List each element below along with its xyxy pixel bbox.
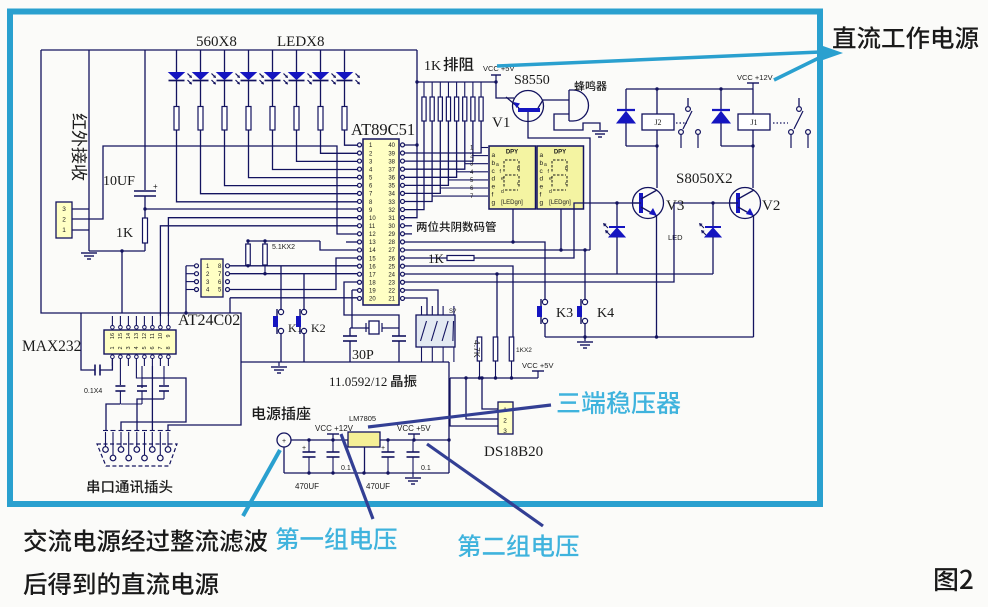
resistor 5.1K b <box>263 244 268 265</box>
svg-text:b: b <box>565 166 568 172</box>
pin 11 <box>358 224 362 228</box>
wire power rail <box>291 439 449 441</box>
capacitor C5 <box>81 313 95 370</box>
svg-text:0.1: 0.1 <box>341 465 351 472</box>
capacitor 104 a <box>332 440 334 452</box>
wire pin21 <box>404 298 427 315</box>
svg-text:4.7K: 4.7K <box>472 340 482 358</box>
wire J1 bottom <box>752 130 754 146</box>
wire RN5 to pin36 <box>404 121 457 177</box>
pin 6 <box>358 183 362 187</box>
svg-text:33: 33 <box>388 200 395 206</box>
IR receiver U-IR <box>56 202 72 238</box>
pin 30 <box>401 224 405 228</box>
svg-text:d: d <box>540 176 544 183</box>
svg-text:+: + <box>302 445 306 452</box>
svg-text:15: 15 <box>118 333 124 339</box>
svg-text:1: 1 <box>62 227 66 234</box>
display DPY1 <box>489 146 536 209</box>
contact S J2 <box>687 98 689 106</box>
svg-text:4: 4 <box>134 346 140 349</box>
pin 36 <box>401 175 405 179</box>
wire ds pin1 <box>482 378 498 409</box>
wire K4 bottom <box>584 324 586 338</box>
svg-text:40: 40 <box>388 143 395 149</box>
svg-text:+: + <box>153 182 158 191</box>
svg-text:AT89C51: AT89C51 <box>351 120 415 139</box>
label regulator cyan <box>558 391 681 414</box>
wire RN4 to pin35 <box>404 121 448 185</box>
wire rxd <box>168 218 358 316</box>
pin 16 <box>358 264 362 268</box>
label IR receiver vertical <box>72 114 88 181</box>
LED D2 <box>200 50 202 73</box>
wire pin31 EA <box>404 145 417 218</box>
resistor 560 R3 <box>222 107 227 131</box>
wire gnd to db9 <box>168 362 241 430</box>
label AC filter line2 <box>24 572 219 595</box>
svg-text:24: 24 <box>388 272 395 278</box>
svg-text:S8050X2: S8050X2 <box>676 171 733 187</box>
wire left outer gnd run <box>41 50 241 362</box>
svg-text:1: 1 <box>110 346 116 349</box>
ground rail <box>241 361 449 363</box>
wire RST column <box>144 50 146 190</box>
wire J2 bottom <box>656 130 658 146</box>
pin 28 <box>401 240 405 244</box>
capacitor C6 <box>119 366 121 385</box>
svg-text:27: 27 <box>388 248 395 254</box>
svg-text:VCC +12V: VCC +12V <box>737 73 773 82</box>
pin 15 <box>358 256 362 260</box>
wire max to db9 d <box>137 399 164 430</box>
pin 13 <box>358 240 362 244</box>
transistor V2 S8050 <box>730 188 761 219</box>
LED D1 <box>176 50 178 73</box>
svg-text:12: 12 <box>369 232 376 238</box>
wire top VCC rail <box>41 49 417 51</box>
wire max to db9 b <box>141 385 143 388</box>
resistor 560 R1 <box>174 107 179 131</box>
wire LED4 to pin5 <box>249 130 359 178</box>
pin 38 <box>401 159 405 163</box>
svg-text:e: e <box>492 184 496 191</box>
wire max to db9 c <box>121 378 186 430</box>
wire dpy1 common <box>512 209 514 242</box>
svg-text:1K: 1K <box>116 226 133 241</box>
wire 5.1K tie <box>248 240 320 242</box>
svg-text:a: a <box>544 162 547 168</box>
wire RN5 to display seg <box>457 171 488 173</box>
wire pin28 to K3 <box>404 242 545 300</box>
svg-text:1KX2: 1KX2 <box>516 347 532 354</box>
wire RN rail <box>417 81 496 83</box>
svg-text:b: b <box>540 160 544 167</box>
capacitor 470UF a <box>308 440 310 452</box>
resistor 560 R8 <box>342 107 347 131</box>
frame border <box>10 12 820 505</box>
diode LED V3 <box>615 201 618 204</box>
wire K2 up <box>303 274 305 310</box>
resistor pullup <box>477 337 482 361</box>
wire LED2 to pin7 <box>201 130 359 194</box>
pin 3 <box>358 159 362 163</box>
label serial <box>87 480 172 493</box>
svg-text:2: 2 <box>503 418 507 425</box>
resistor RN1 <box>423 82 425 97</box>
switch K2 <box>301 309 306 314</box>
pin 22 <box>401 288 405 292</box>
wire jack down <box>283 447 285 473</box>
wire RN2 to pin33 <box>404 121 432 202</box>
relay J1 <box>752 89 754 114</box>
pin 10 <box>358 216 362 220</box>
svg-text:a: a <box>496 162 499 168</box>
display DPY2 <box>537 146 584 209</box>
svg-text:J2: J2 <box>654 118 661 127</box>
wire pin20 gnd <box>230 298 357 313</box>
svg-text:+: + <box>381 445 385 452</box>
svg-text:DS18B20: DS18B20 <box>484 444 543 460</box>
svg-text:6: 6 <box>150 346 156 349</box>
resistor 560 R7 <box>318 107 323 131</box>
wire LED5 to pin4 <box>273 130 359 170</box>
regulator LM7805 <box>348 432 380 447</box>
pin 34 <box>401 191 405 195</box>
pin 12 <box>358 232 362 236</box>
svg-text:DPY: DPY <box>506 150 518 156</box>
svg-text:LM7805: LM7805 <box>349 414 376 423</box>
wire pin24 rail <box>404 273 713 275</box>
svg-text:560X8: 560X8 <box>196 34 237 50</box>
pin 7 <box>358 191 362 195</box>
sensor DS18B20 <box>498 402 513 434</box>
wire relay rail <box>626 88 753 90</box>
label power socket <box>253 406 311 420</box>
svg-text:5: 5 <box>142 346 148 349</box>
svg-text:a: a <box>492 152 496 159</box>
capacitor 104 b <box>412 440 414 452</box>
svg-text:19: 19 <box>369 289 376 295</box>
svg-text:14: 14 <box>369 248 376 254</box>
svg-text:0.1X4: 0.1X4 <box>84 388 102 395</box>
svg-text:[LEDgn]: [LEDgn] <box>501 200 523 206</box>
svg-text:18: 18 <box>369 281 376 287</box>
svg-text:LED: LED <box>668 233 683 242</box>
wire RN4 to display seg <box>448 179 488 181</box>
svg-text:30: 30 <box>388 224 395 230</box>
pin 19 <box>358 288 362 292</box>
wire K1 down <box>280 334 282 362</box>
wire xtal right <box>382 327 399 329</box>
svg-text:14: 14 <box>126 333 132 339</box>
pin 24 <box>401 272 405 276</box>
svg-text:g: g <box>492 199 496 206</box>
svg-text:31: 31 <box>388 216 395 222</box>
wire LED1 to pin8 <box>177 130 359 202</box>
LED D5 <box>272 50 274 73</box>
wire emitter rail <box>545 336 754 338</box>
svg-text:26: 26 <box>388 256 395 262</box>
LED D6 <box>296 50 298 73</box>
label AC filter line1 <box>24 529 267 552</box>
wire V1 base down <box>528 112 590 250</box>
capacitor 470UF b <box>387 440 389 452</box>
wire 1K to V3 base <box>474 203 641 258</box>
label group2 <box>458 534 579 557</box>
wire pin25 pulldown <box>404 266 513 337</box>
svg-text:34: 34 <box>388 192 395 198</box>
label DC supply <box>833 26 978 49</box>
capacitor C30P a <box>349 328 351 336</box>
pin 37 <box>401 167 405 171</box>
pin 35 <box>401 183 405 187</box>
pin 20 <box>358 296 362 300</box>
svg-text:11: 11 <box>150 333 156 339</box>
wire RN3 to display seg <box>440 187 488 189</box>
wire cap to junction <box>144 196 146 218</box>
svg-text:470UF: 470UF <box>295 482 319 491</box>
svg-text:AT24C02: AT24C02 <box>178 312 240 329</box>
pin 1 <box>358 143 362 147</box>
svg-text:b: b <box>492 160 496 167</box>
svg-text:13: 13 <box>369 240 376 246</box>
wire J1 to V2 <box>752 146 754 188</box>
pin 32 <box>401 208 405 212</box>
pin 33 <box>401 199 405 203</box>
wire dpy2 common <box>560 209 562 250</box>
label fengmingqi <box>574 81 606 91</box>
wire pin23 to V2 base <box>404 203 738 282</box>
wire RST to pin9 <box>145 208 358 210</box>
wire max to db9 e <box>151 366 153 430</box>
svg-text:8: 8 <box>166 346 172 349</box>
resistor RN5 <box>456 82 458 97</box>
svg-text:3: 3 <box>503 428 507 435</box>
svg-text:K4: K4 <box>597 306 614 321</box>
transistor V3 S8050 <box>633 188 664 219</box>
label liangwei <box>404 225 412 227</box>
svg-text:15: 15 <box>369 256 376 262</box>
IC MAX232 U2 <box>104 330 176 354</box>
diode D2 flyback <box>625 89 627 110</box>
IC AT89C51 U1 <box>363 139 399 305</box>
arrow group1 <box>341 434 373 519</box>
wire RN2 to display seg <box>432 195 488 197</box>
svg-text:VCC +5V: VCC +5V <box>522 361 553 370</box>
svg-text:K2: K2 <box>311 321 326 335</box>
svg-text:2: 2 <box>118 346 124 349</box>
resistor 5.1K a <box>246 244 251 265</box>
wire max to db9 a <box>106 404 120 430</box>
wire LED3 to pin6 <box>225 130 359 186</box>
wire 5.1Ka bottom <box>247 265 249 266</box>
svg-text:J1: J1 <box>750 118 757 127</box>
svg-text:f: f <box>492 192 494 199</box>
wire LED7 to pin2 <box>321 130 359 153</box>
svg-text:16: 16 <box>110 333 116 339</box>
pin 27 <box>401 248 405 252</box>
pin 9 <box>358 208 362 212</box>
svg-text:V2: V2 <box>762 198 780 214</box>
svg-text:38: 38 <box>388 159 395 165</box>
svg-text:2: 2 <box>62 217 66 224</box>
wire pullup rail <box>450 377 538 379</box>
wire V3 emitter <box>656 215 658 337</box>
svg-text:DPY: DPY <box>554 150 566 156</box>
svg-text:g: g <box>540 199 544 206</box>
svg-text:30P: 30P <box>352 348 374 363</box>
wire LED6 to pin3 <box>297 130 359 161</box>
svg-text:VCC +5V: VCC +5V <box>397 424 431 433</box>
pin 8 <box>358 199 362 203</box>
svg-text:36: 36 <box>388 176 395 182</box>
LED D7 <box>320 50 322 73</box>
wire pin27 to K4 <box>404 249 590 251</box>
pin 18 <box>358 280 362 284</box>
pin 39 <box>401 151 405 155</box>
power jack J3 <box>277 433 291 447</box>
svg-text:10: 10 <box>158 333 164 339</box>
svg-text:0.1: 0.1 <box>421 465 431 472</box>
pin 25 <box>401 264 405 268</box>
svg-text:1K: 1K <box>428 251 445 266</box>
ground power <box>412 473 414 477</box>
wire RN8 to display seg <box>481 147 488 149</box>
wire IR pin1 <box>72 229 89 231</box>
wire K3 bottom <box>544 324 546 338</box>
buzzer LS1 <box>569 90 588 121</box>
svg-text:b: b <box>517 166 520 172</box>
LED D3 <box>224 50 226 73</box>
wire V2 emitter <box>753 215 755 337</box>
wire LED8 to pin1 <box>345 130 359 145</box>
wire xtal left <box>350 327 369 329</box>
pin 26 <box>401 256 405 260</box>
wire pin18 xtal <box>344 282 399 328</box>
pin 5 <box>358 175 362 179</box>
arrow to VCC5 <box>497 52 832 67</box>
wire pin13 stub <box>346 241 357 243</box>
wire j1 down <box>121 251 123 313</box>
pin 29 <box>401 232 405 236</box>
wire power right <box>448 362 450 473</box>
svg-text:+: + <box>282 438 286 445</box>
svg-text:22: 22 <box>388 289 395 295</box>
wire 1K to gnd <box>144 243 146 251</box>
resistor 1K RST <box>143 218 148 243</box>
wire pin22 <box>404 290 438 315</box>
resistor 560 R5 <box>270 107 275 131</box>
wire pin19 xtal <box>352 290 358 328</box>
wire K2 down <box>303 334 305 362</box>
wire RN6 to display seg <box>465 163 488 165</box>
wire 5.1Kb bottom <box>264 265 266 274</box>
ground K <box>584 337 586 341</box>
svg-text:35: 35 <box>388 184 395 190</box>
svg-text:13: 13 <box>134 333 140 339</box>
connector DB9 <box>97 444 177 466</box>
relay J2 <box>656 89 658 114</box>
resistor RN8 <box>480 82 482 97</box>
svg-text:23: 23 <box>388 281 395 287</box>
pin 2 <box>358 151 362 155</box>
capacitor 10UF <box>134 190 156 192</box>
pin 40 <box>401 143 405 147</box>
label group1 <box>276 527 397 550</box>
wire pin26 1K <box>404 257 447 259</box>
wire txd <box>160 226 358 316</box>
pin 23 <box>401 280 405 284</box>
pin 31 <box>401 216 405 220</box>
svg-text:32: 32 <box>388 208 395 214</box>
arrow group2 <box>427 444 543 526</box>
svg-text:K3: K3 <box>556 306 573 321</box>
svg-text:f: f <box>540 192 542 199</box>
wire IR pin2 route <box>72 146 358 234</box>
svg-text:29: 29 <box>388 232 395 238</box>
wire IR pin3 <box>72 208 89 210</box>
resistor RN4 <box>447 82 449 97</box>
svg-text:21: 21 <box>388 297 395 303</box>
wire power bottom rail <box>284 472 449 474</box>
svg-text:17: 17 <box>369 272 376 278</box>
wire RN7 to pin38 <box>404 121 473 161</box>
svg-text:37: 37 <box>388 167 395 173</box>
capacitor C7 <box>141 366 143 385</box>
svg-text:10UF: 10UF <box>103 174 135 189</box>
svg-text:25: 25 <box>388 264 395 270</box>
wire SDA line <box>230 265 358 267</box>
svg-text:MAX232: MAX232 <box>22 338 81 355</box>
wire SCL line <box>230 273 358 275</box>
svg-text:LEDX8: LEDX8 <box>277 34 325 50</box>
svg-text:e: e <box>549 176 552 182</box>
svg-text:e: e <box>540 184 544 191</box>
LED D4 <box>248 50 250 73</box>
arrow jack <box>243 450 280 516</box>
capacitor C30P b <box>398 328 400 336</box>
svg-text:V1: V1 <box>492 115 510 131</box>
resistor RN7 <box>472 82 474 97</box>
diode LED V2 <box>711 201 714 204</box>
wire buzzer return <box>554 114 600 130</box>
svg-text:11: 11 <box>369 224 376 230</box>
svg-text:3: 3 <box>62 206 66 213</box>
wire ds pin2 <box>466 378 498 419</box>
IC AT24C02 U3 <box>201 259 223 297</box>
svg-text:a: a <box>540 152 544 159</box>
svg-text:28: 28 <box>388 240 395 246</box>
wire V1 collector <box>542 99 569 101</box>
wire 7805 gnd <box>364 447 366 473</box>
wire IR receiver supply column <box>88 50 90 251</box>
svg-text:39: 39 <box>388 151 395 157</box>
IC opto S <box>416 315 455 347</box>
resistor RN6 <box>464 82 466 97</box>
capacitor C8 <box>163 366 165 385</box>
pin 4 <box>358 167 362 171</box>
wire RN3 to pin34 <box>404 121 440 193</box>
svg-text:12: 12 <box>142 333 148 339</box>
svg-text:3: 3 <box>126 346 132 349</box>
svg-text:[LEDgn]: [LEDgn] <box>549 200 571 206</box>
svg-text:16: 16 <box>369 264 376 270</box>
svg-text:d: d <box>501 189 504 195</box>
transistor V1 S8550 <box>513 91 544 122</box>
LED D8 <box>344 50 346 73</box>
contact S J1 <box>798 98 800 106</box>
